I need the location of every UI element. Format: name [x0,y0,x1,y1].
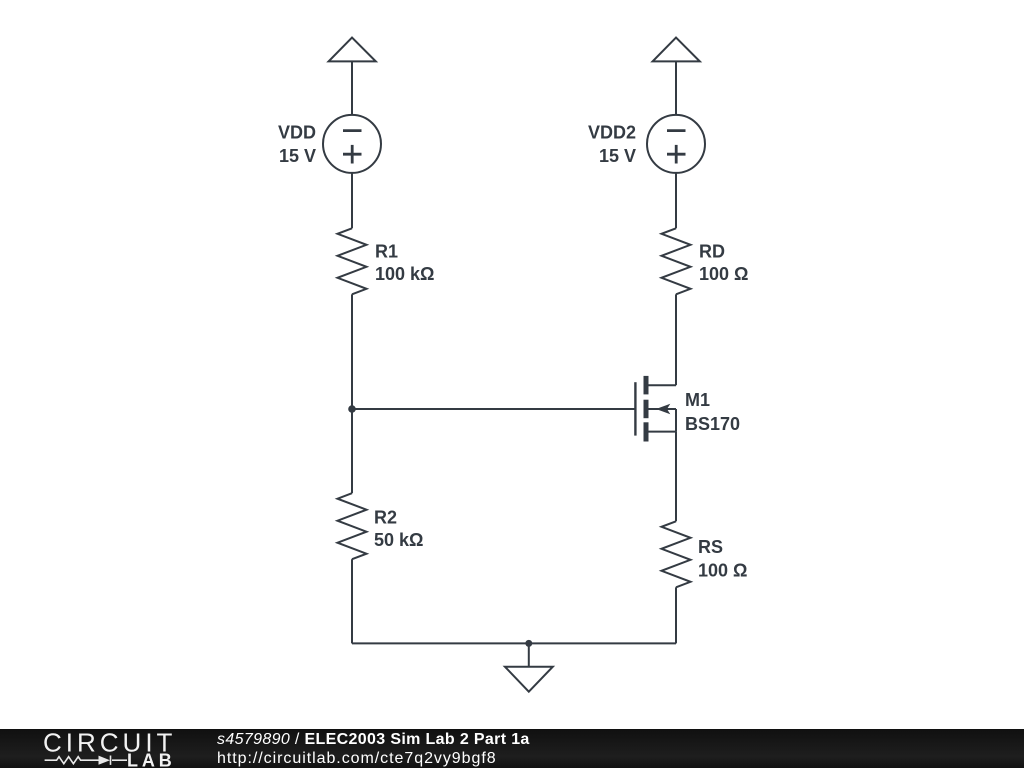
footer bar [0,729,1024,768]
svg-text:BS170: BS170 [685,414,740,434]
ground symbol [505,643,553,691]
svg-text:100 Ω: 100 Ω [699,264,748,284]
label R1 100 kOhm [375,242,434,284]
channel bar source [644,422,649,441]
channel bar body [644,400,649,419]
resistor R1 [338,228,367,294]
wire gate node to R2 [351,409,353,493]
svg-text:15 V: 15 V [599,146,636,166]
wire RS to ground rail [675,587,677,643]
power flag VDD2 (triangle) [653,38,700,116]
resistor RS [662,521,691,587]
label RS 100 Ohm [698,537,747,581]
svg-text:15 V: 15 V [279,146,316,166]
source tap [646,431,676,433]
resistor R2 [338,493,367,559]
voltage source VDD2 [647,115,705,173]
svg-text:R2: R2 [374,508,397,528]
label RD 100 Ohm [699,242,748,284]
svg-text:M1: M1 [685,390,710,410]
source/body vertical [675,409,677,432]
label R2 50 kOhm [374,508,423,551]
label VDD 15 V [278,123,316,166]
CircuitLab logo [0,729,200,768]
logo resistor-diode wire [45,756,127,765]
label M1 BS170 [685,390,740,434]
svg-text:100 kΩ: 100 kΩ [375,264,434,284]
svg-text:RS: RS [698,537,723,557]
footer url text [217,750,497,768]
node junction dot (ground rail) [525,640,532,647]
body tap with arrow [649,408,677,410]
channel bar drain [644,376,649,395]
svg-text:LAB: LAB [127,751,176,768]
transistor M1 (NMOS BS170) [635,376,676,442]
wire R1 to gate node [351,294,353,409]
svg-text:RD: RD [699,242,725,262]
svg-text:VDD: VDD [278,123,316,143]
node junction dot (gate node) [348,405,356,413]
wire M1 source to RS [675,432,677,522]
voltage source VDD [323,115,381,173]
label VDD2 15 V [588,123,636,166]
wire gate node to M1 gate [352,408,635,410]
svg-text:R1: R1 [375,242,398,262]
svg-text:100 Ω: 100 Ω [698,561,747,581]
drain tap [646,384,676,386]
gate line [634,382,636,435]
footer title text [217,731,530,749]
resistor RD [662,228,691,294]
svg-text:50 kΩ: 50 kΩ [374,530,423,550]
wire ground rail [352,642,676,644]
power flag VDD (triangle) [329,38,376,116]
svg-text:VDD2: VDD2 [588,123,636,143]
wire R2 to ground rail [351,559,353,643]
wire VDD2 source to RD [675,172,677,228]
wire RD to M1 drain [675,294,677,385]
wire VDD source to R1 [351,172,353,228]
